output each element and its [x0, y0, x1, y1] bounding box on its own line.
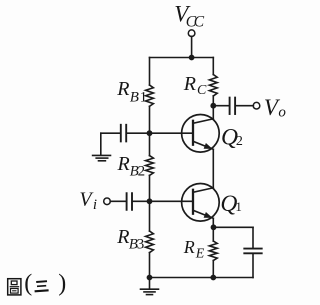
svg-text:B: B	[130, 89, 139, 105]
svg-text:R: R	[116, 78, 129, 100]
svg-text:1: 1	[140, 89, 148, 105]
ground bottom	[141, 289, 159, 294]
svg-text:3: 3	[137, 237, 145, 253]
label RB3	[116, 226, 144, 253]
svg-text:E: E	[195, 247, 205, 262]
label figure caption 圖(三)	[8, 271, 66, 297]
node junction left-bottom	[147, 275, 153, 281]
node Vi terminal	[104, 198, 111, 205]
svg-text:2: 2	[138, 163, 146, 179]
glyph 圖	[8, 279, 21, 295]
svg-text:2: 2	[236, 134, 243, 149]
node junction emitter Q1/RE/CE	[211, 224, 217, 230]
transistor Q2	[182, 115, 220, 153]
svg-text:(: (	[24, 271, 32, 297]
wire Q2 base	[150, 132, 194, 134]
label Vi	[79, 189, 97, 213]
wire ground stub bottom	[149, 278, 151, 289]
wire bypass branch down	[252, 227, 254, 247]
wire Q1 base	[133, 200, 193, 202]
capacitor output Co	[229, 98, 231, 114]
wire right rail top	[212, 58, 214, 75]
wire Q2 emitter to Q1 collector	[212, 149, 214, 188]
svg-text:R: R	[117, 153, 130, 175]
node junction VCC/top rail	[189, 55, 195, 61]
svg-text:R: R	[183, 73, 196, 95]
capacitor CB2	[120, 125, 122, 142]
wire top rail	[150, 57, 214, 59]
label RB2	[117, 153, 146, 180]
wire bottom rail	[150, 277, 254, 279]
glyph 三	[35, 281, 49, 291]
label Q1	[220, 191, 242, 217]
wire left rail RB2-RB3	[149, 175, 151, 231]
wire RE bottom	[212, 261, 214, 278]
wire left rail RB1-RB2	[149, 106, 151, 155]
svg-text:R: R	[116, 226, 129, 248]
wire VCC stem	[191, 36, 193, 57]
wire left rail upper	[149, 58, 151, 86]
node Vo terminal	[253, 102, 260, 109]
svg-text:R: R	[183, 237, 195, 257]
wire bypass branch lower	[252, 254, 254, 277]
wire upper-left down to ground	[100, 133, 102, 155]
ground upper-left	[93, 155, 111, 160]
wire Vo lead right	[236, 105, 253, 107]
svg-text:C: C	[197, 83, 207, 98]
label RE	[183, 237, 205, 262]
node junction collector Q2/RC/Vo	[210, 103, 216, 109]
label Vo	[264, 95, 287, 121]
node junction RE/CE bottom	[210, 275, 216, 281]
resistor RB2	[146, 156, 154, 176]
wire base coupling upper left	[101, 132, 120, 134]
svg-text:1: 1	[235, 199, 242, 214]
wire left rail bottom	[149, 253, 151, 278]
wire Q1 emitter to RE	[212, 218, 214, 241]
label Q2	[221, 124, 243, 150]
svg-text:i: i	[93, 197, 97, 213]
wire cap to RB1-RB2 node	[127, 132, 149, 134]
resistor RB3	[146, 231, 154, 253]
wire RC to collector node	[212, 96, 214, 119]
wire Vo lead left	[213, 105, 228, 107]
wire Vi lead	[110, 200, 126, 202]
resistor RB1	[146, 85, 154, 106]
capacitor CE bypass	[244, 248, 261, 250]
node junction RB1/RB2/base Q2	[147, 130, 153, 136]
node junction RB2/RB3/base Q1	[147, 198, 153, 204]
resistor RE	[209, 241, 217, 261]
transistor Q1	[182, 184, 220, 222]
capacitor input Ci	[126, 193, 128, 210]
svg-text:o: o	[278, 105, 286, 121]
resistor RC	[209, 75, 217, 97]
label RB1	[116, 78, 147, 105]
wire emitter node to bypass branch	[213, 226, 253, 228]
label VCC	[174, 2, 205, 31]
node VCC terminal	[188, 30, 195, 37]
label RC	[183, 73, 207, 98]
svg-text:C: C	[194, 13, 205, 30]
svg-text:): )	[58, 271, 66, 297]
